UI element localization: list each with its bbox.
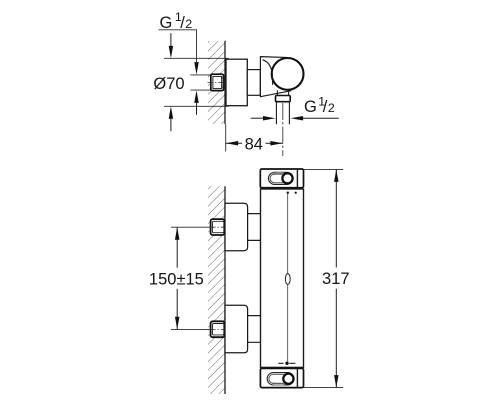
svg-text:150±15: 150±15 <box>149 270 204 288</box>
extension line inlet thread top <box>190 74 211 76</box>
bottom cap circle <box>283 374 293 384</box>
dimension 317 line lower segment <box>335 289 337 388</box>
bottom union nut (front view) <box>211 321 225 337</box>
svg-text:G: G <box>304 98 317 116</box>
dimension 84: line left segment <box>226 142 242 144</box>
dimension line Ø70 top extension <box>164 57 229 59</box>
svg-text:2: 2 <box>185 17 192 31</box>
flow indicator dots <box>287 192 289 194</box>
wall hatch (side view) <box>208 41 225 124</box>
arrow 150 bottom (down) <box>175 317 180 330</box>
arrow G1/2 bottom (up) <box>194 90 199 115</box>
svg-text:84: 84 <box>245 135 263 153</box>
flow indicator line <box>287 194 289 363</box>
wall hatch (front view) <box>208 186 225 394</box>
svg-text:Ø70: Ø70 <box>153 75 184 93</box>
bottom nut centerline / 150 extension <box>171 328 225 330</box>
svg-text:2: 2 <box>328 101 335 115</box>
dimension 84: line right segment <box>266 142 283 144</box>
wall face line (front view) <box>224 186 226 394</box>
inlet union nut (side view) <box>211 74 224 90</box>
bottom cap divider <box>296 368 298 387</box>
body main rectangle (front view) <box>261 189 304 367</box>
dimension 317 line upper segment <box>335 169 337 267</box>
outlet pipe lines <box>276 102 289 125</box>
top S-union escutcheon block <box>225 203 248 250</box>
top cap circle <box>282 173 292 183</box>
arrow Ø70 upper <box>169 33 174 58</box>
top cap (shower outlet housing) <box>260 169 303 188</box>
valve body (side view) <box>260 57 290 97</box>
bottom cap (hose outlet housing) <box>260 368 303 387</box>
connector sleeve <box>247 70 260 96</box>
top nut centerline / 150 extension <box>171 226 225 228</box>
317 bottom extension line <box>304 387 344 389</box>
top neck lines <box>248 214 261 241</box>
dimension 150±15 line upper segment <box>176 227 178 267</box>
bottom neck lines <box>248 316 261 343</box>
wall face line (side view) <box>224 41 226 124</box>
svg-text:317: 317 <box>322 270 350 288</box>
outlet centerline <box>282 103 284 156</box>
escutcheon flange (side view) <box>226 59 247 105</box>
temperature knob button <box>285 274 290 285</box>
inlet nut inner face <box>213 76 222 88</box>
arrow 84 left <box>226 141 238 146</box>
bottom capsule outer <box>267 373 294 385</box>
arrow 317 top (up) <box>334 169 339 182</box>
dimension line Ø70 bottom extension <box>164 105 229 107</box>
label G 1/2 (top inlet) <box>160 10 193 32</box>
arrow 150 top (up) <box>175 227 180 240</box>
top nut inner bevel <box>213 221 224 232</box>
dimension 150±15 line lower segment <box>176 289 178 329</box>
top union nut (front view) <box>211 219 225 235</box>
extension line, wall face to 84 dim <box>225 124 227 152</box>
dimension G1/2 outlet: right arrow + leader <box>291 116 339 121</box>
arrow 317 bottom (down) <box>334 375 339 388</box>
arrow G1/2 top (down) <box>194 62 199 75</box>
outlet hose nut <box>276 96 291 102</box>
leader G1/2 top: underline and drop <box>159 30 197 62</box>
top capsule outer <box>269 172 293 184</box>
arrow Ø70 lower <box>169 106 174 131</box>
top capsule shading <box>273 172 284 175</box>
top capsule inner <box>270 174 291 183</box>
bottom nut inner bevel <box>213 324 224 335</box>
handle cap circle (side view) <box>272 58 304 90</box>
bottom S-union escutcheon block <box>225 305 248 353</box>
inlet centerline <box>208 81 226 83</box>
bottom marker dash-dot <box>278 362 295 365</box>
outlet stub lines <box>277 90 288 95</box>
dimension G1/2 outlet: left line + arrow <box>251 116 276 121</box>
arrow 84 right <box>270 141 282 146</box>
label G 1/2 (outlet) <box>304 94 335 116</box>
inlet nut back ring <box>222 78 224 87</box>
bottom capsule shading <box>273 382 284 385</box>
body fillet curve <box>263 60 273 85</box>
extension line inlet thread bottom <box>190 89 211 91</box>
top cap divider <box>296 169 298 188</box>
svg-text:G: G <box>160 14 173 32</box>
317 top extension line <box>304 168 344 170</box>
bottom capsule inner <box>269 374 292 383</box>
